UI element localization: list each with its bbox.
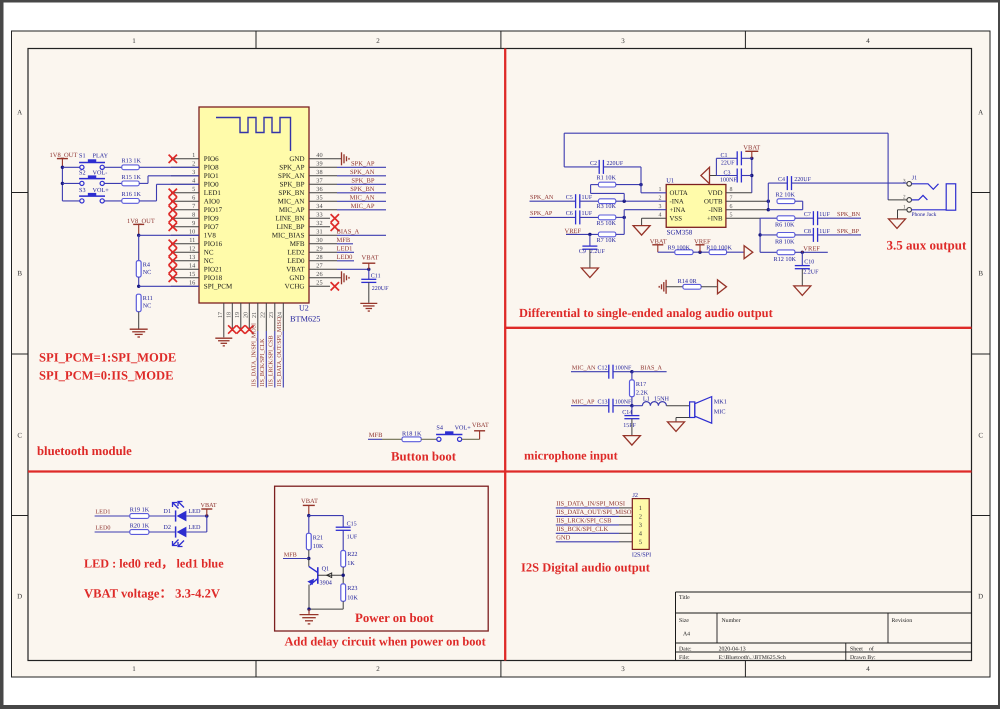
svg-text:21: 21 — [252, 312, 258, 318]
svg-text:220UF: 220UF — [794, 177, 811, 183]
svg-text:D: D — [978, 592, 983, 600]
svg-text:11: 11 — [189, 237, 195, 244]
svg-text:C12: C12 — [597, 366, 607, 372]
svg-text:LED: LED — [188, 508, 201, 515]
svg-text:PIO21: PIO21 — [204, 266, 223, 274]
svg-text:220UF: 220UF — [607, 161, 624, 167]
svg-text:NC: NC — [143, 269, 152, 276]
svg-text:SPK_AN: SPK_AN — [278, 172, 304, 180]
svg-text:4: 4 — [866, 665, 870, 673]
svg-text:2: 2 — [376, 37, 380, 45]
svg-text:5: 5 — [639, 539, 642, 546]
svg-text:4: 4 — [866, 37, 870, 45]
svg-text:D: D — [17, 592, 22, 600]
svg-text:1K: 1K — [347, 560, 355, 567]
svg-text:36: 36 — [316, 186, 322, 193]
svg-text:29: 29 — [316, 246, 322, 253]
svg-text:MIC_AP: MIC_AP — [572, 399, 595, 406]
svg-text:220UF: 220UF — [372, 286, 389, 292]
svg-text:NC: NC — [204, 249, 214, 257]
svg-text:microphone input: microphone input — [524, 449, 619, 463]
svg-text:PIO0: PIO0 — [204, 181, 219, 189]
svg-text:C9: C9 — [579, 249, 586, 255]
svg-text:R16 1K: R16 1K — [122, 191, 142, 198]
svg-text:R3 10K: R3 10K — [597, 203, 617, 210]
svg-text:Drawn By:: Drawn By: — [850, 655, 876, 661]
svg-text:PIO9: PIO9 — [204, 215, 219, 223]
svg-text:22: 22 — [261, 312, 267, 318]
svg-text:VOL-: VOL- — [93, 169, 108, 176]
svg-text:2: 2 — [192, 161, 195, 168]
svg-text:28: 28 — [316, 254, 322, 261]
svg-text:MIC_BIAS: MIC_BIAS — [272, 232, 305, 240]
svg-text:34: 34 — [316, 203, 323, 210]
svg-text:OUTB: OUTB — [704, 198, 723, 205]
svg-text:MFB: MFB — [337, 237, 351, 244]
svg-text:100NF: 100NF — [615, 366, 632, 372]
svg-text:S3: S3 — [79, 187, 86, 194]
svg-text:9: 9 — [192, 220, 195, 227]
svg-text:+INA: +INA — [670, 207, 686, 214]
svg-text:R20 1K: R20 1K — [130, 523, 150, 530]
svg-text:R21: R21 — [313, 534, 323, 541]
svg-text:1: 1 — [639, 505, 642, 512]
svg-text:IIS_DATA_OUT/SPI_MISO: IIS_DATA_OUT/SPI_MISO — [277, 316, 283, 386]
svg-text:SPI_PCM=0:IIS_MODE: SPI_PCM=0:IIS_MODE — [39, 369, 174, 383]
svg-text:C: C — [978, 431, 983, 439]
svg-text:C14: C14 — [622, 410, 632, 416]
svg-text:C15: C15 — [347, 521, 357, 527]
svg-text:17: 17 — [218, 312, 224, 318]
svg-text:I2S/SPI: I2S/SPI — [632, 552, 651, 559]
svg-text:15PF: 15PF — [623, 423, 636, 429]
svg-text:7: 7 — [730, 195, 733, 201]
svg-text:VBAT: VBAT — [301, 498, 318, 505]
svg-text:VREF: VREF — [803, 245, 820, 252]
svg-text:3: 3 — [659, 204, 662, 210]
svg-text:C: C — [17, 431, 22, 439]
svg-text:R18 1K: R18 1K — [402, 431, 422, 438]
svg-text:MFB: MFB — [284, 552, 297, 559]
svg-text:3904: 3904 — [320, 580, 332, 587]
svg-text:35: 35 — [316, 195, 322, 202]
svg-text:R10 100K: R10 100K — [706, 244, 732, 251]
svg-text:U2: U2 — [299, 304, 309, 313]
svg-text:C10: C10 — [804, 259, 814, 265]
svg-text:S4: S4 — [436, 425, 443, 432]
svg-text:LINE_BN: LINE_BN — [275, 215, 304, 223]
svg-text:C6: C6 — [566, 211, 573, 217]
svg-text:R7 10K: R7 10K — [597, 237, 617, 244]
svg-text:MIC_AP: MIC_AP — [351, 203, 375, 210]
svg-text:Button boot: Button boot — [391, 450, 457, 464]
svg-text:Title: Title — [679, 594, 690, 601]
svg-text:16: 16 — [189, 280, 195, 287]
svg-text:SPK_BN: SPK_BN — [837, 211, 861, 218]
svg-text:MIC_AN: MIC_AN — [278, 198, 305, 206]
svg-text:LED: LED — [188, 524, 201, 531]
svg-text:LED0: LED0 — [337, 254, 353, 261]
svg-text:A4: A4 — [683, 631, 690, 637]
svg-text:30: 30 — [316, 237, 322, 244]
svg-text:1: 1 — [192, 152, 195, 159]
svg-text:4: 4 — [659, 212, 662, 218]
svg-text:LED1: LED1 — [204, 189, 222, 197]
svg-text:MK1: MK1 — [714, 399, 727, 406]
svg-text:R8 10K: R8 10K — [775, 238, 795, 245]
svg-text:VCHG: VCHG — [285, 283, 305, 291]
svg-text:of: of — [869, 645, 874, 652]
svg-text:19: 19 — [235, 312, 241, 318]
svg-text:10K: 10K — [347, 594, 358, 601]
svg-text:BIAS_A: BIAS_A — [640, 365, 662, 372]
svg-text:S1: S1 — [79, 153, 86, 160]
svg-text:D2: D2 — [163, 524, 171, 531]
svg-text:8: 8 — [192, 212, 195, 219]
svg-text:R19 1K: R19 1K — [130, 507, 150, 514]
svg-text:IIS_DATA_IN/SPI_MOSI: IIS_DATA_IN/SPI_MOSI — [252, 323, 258, 387]
svg-text:39: 39 — [316, 161, 322, 168]
svg-text:NC: NC — [143, 303, 152, 310]
svg-text:40: 40 — [316, 152, 322, 159]
svg-text:20: 20 — [244, 312, 250, 318]
svg-text:C5: C5 — [566, 195, 573, 201]
svg-text:10: 10 — [189, 229, 195, 236]
svg-text:SGM358: SGM358 — [667, 229, 693, 237]
svg-text:2: 2 — [903, 195, 906, 201]
svg-text:1: 1 — [132, 665, 136, 673]
svg-text:S2: S2 — [79, 169, 86, 176]
svg-text:38: 38 — [316, 169, 322, 176]
svg-text:5: 5 — [192, 186, 195, 193]
svg-text:VBAT: VBAT — [362, 255, 379, 262]
svg-text:GND: GND — [289, 155, 304, 163]
svg-text:VOL+: VOL+ — [455, 425, 472, 432]
svg-text:LED : led0 red， led1 blue: LED : led0 red， led1 blue — [84, 557, 224, 571]
svg-text:1UF: 1UF — [819, 212, 830, 218]
svg-text:LED1: LED1 — [95, 509, 110, 516]
svg-text:R17: R17 — [636, 381, 646, 388]
svg-text:VBAT voltage： 3.3-4.2V: VBAT voltage： 3.3-4.2V — [84, 587, 220, 601]
svg-text:PIO1: PIO1 — [204, 172, 219, 180]
svg-text:VDD: VDD — [708, 190, 723, 197]
svg-text:IIS_DATA_IN/SPI_MOSI: IIS_DATA_IN/SPI_MOSI — [556, 501, 625, 508]
svg-text:37: 37 — [316, 178, 322, 185]
svg-text:LED2: LED2 — [287, 249, 305, 257]
svg-text:NC: NC — [204, 257, 214, 265]
svg-text:VBAT: VBAT — [201, 502, 217, 509]
svg-text:14: 14 — [189, 263, 196, 270]
svg-text:IIS_LRCK/SPI_CSB: IIS_LRCK/SPI_CSB — [556, 518, 612, 525]
svg-text:15NH: 15NH — [654, 395, 670, 402]
svg-text:PIO6: PIO6 — [204, 155, 219, 163]
svg-text:Differential to single-ended a: Differential to single-ended analog audi… — [519, 306, 774, 320]
svg-text:PIO18: PIO18 — [204, 274, 223, 282]
svg-text:BIAS_A: BIAS_A — [337, 229, 360, 236]
svg-text:B: B — [17, 269, 22, 277]
svg-text:LED1: LED1 — [337, 246, 353, 253]
svg-text:VOL+: VOL+ — [93, 187, 110, 194]
svg-text:R4: R4 — [143, 262, 150, 269]
svg-text:A: A — [17, 108, 22, 116]
svg-text:3: 3 — [903, 179, 906, 185]
svg-text:IIS_DATA_OUT/SPI_MISO: IIS_DATA_OUT/SPI_MISO — [556, 509, 632, 516]
svg-text:R23: R23 — [347, 585, 357, 592]
svg-text:1: 1 — [132, 37, 136, 45]
svg-text:VSS: VSS — [670, 215, 683, 222]
svg-text:R15 1K: R15 1K — [122, 174, 142, 181]
svg-text:1UF: 1UF — [819, 229, 830, 235]
svg-text:3: 3 — [621, 37, 625, 45]
svg-text:SPK_AN: SPK_AN — [350, 169, 375, 176]
svg-text:SPK_AP: SPK_AP — [530, 210, 553, 217]
svg-text:18: 18 — [227, 312, 233, 318]
svg-text:10K: 10K — [313, 543, 324, 550]
svg-text:2: 2 — [639, 514, 642, 521]
svg-text:I2S Digital audio output: I2S Digital audio output — [521, 561, 651, 575]
svg-text:C11: C11 — [371, 274, 381, 280]
svg-text:LED0: LED0 — [95, 525, 110, 532]
svg-text:C3: C3 — [723, 170, 730, 176]
svg-text:27: 27 — [316, 263, 322, 270]
svg-text:LINE_BP: LINE_BP — [277, 223, 305, 231]
svg-text:MIC_AN: MIC_AN — [572, 365, 596, 372]
svg-text:Sheet: Sheet — [850, 645, 863, 652]
svg-text:2.2UF: 2.2UF — [803, 269, 819, 275]
svg-text:Size: Size — [679, 618, 689, 624]
svg-text:PIO16: PIO16 — [204, 240, 223, 248]
svg-text:Revision: Revision — [892, 618, 913, 624]
svg-text:23: 23 — [269, 312, 275, 318]
svg-text:33: 33 — [316, 212, 322, 219]
svg-text:C13: C13 — [597, 400, 607, 406]
svg-text:5: 5 — [730, 212, 733, 218]
svg-text:C4: C4 — [778, 177, 785, 183]
svg-text:MFB: MFB — [369, 432, 383, 439]
svg-text:15: 15 — [189, 271, 195, 278]
svg-text:R22: R22 — [347, 551, 357, 558]
svg-text:12: 12 — [189, 246, 195, 253]
svg-text:R11: R11 — [143, 295, 153, 302]
svg-text:File:: File: — [679, 654, 690, 661]
svg-text:D1: D1 — [163, 508, 171, 515]
svg-text:-INA: -INA — [670, 198, 684, 205]
svg-text:Number: Number — [722, 617, 741, 624]
svg-text:2: 2 — [376, 665, 380, 673]
svg-text:7: 7 — [192, 203, 195, 210]
svg-text:B: B — [978, 269, 983, 277]
svg-text:C1: C1 — [720, 153, 727, 159]
svg-text:1V8: 1V8 — [204, 232, 217, 240]
svg-text:Date:: Date: — [679, 646, 692, 652]
svg-text:PIO17: PIO17 — [204, 206, 223, 214]
svg-text:VBAT: VBAT — [472, 422, 489, 429]
svg-text:8: 8 — [730, 187, 733, 193]
svg-text:MIC_AP: MIC_AP — [279, 206, 305, 214]
svg-text:25: 25 — [316, 280, 322, 287]
svg-text:1UF: 1UF — [582, 211, 593, 217]
svg-text:-INB: -INB — [709, 207, 723, 214]
svg-text:PIO7: PIO7 — [204, 223, 219, 231]
svg-text:BTM625: BTM625 — [290, 315, 320, 324]
svg-text:E:\Bluetooth\..\BTM625.Sch: E:\Bluetooth\..\BTM625.Sch — [719, 654, 786, 661]
svg-text:SPK_BP: SPK_BP — [351, 178, 375, 185]
svg-text:SPI_PCM: SPI_PCM — [204, 283, 233, 291]
svg-text:100NF: 100NF — [720, 178, 737, 184]
svg-text:C2: C2 — [590, 161, 597, 167]
svg-text:SPK_AP: SPK_AP — [351, 161, 375, 168]
svg-text:A: A — [978, 108, 983, 116]
svg-text:1: 1 — [659, 187, 662, 193]
svg-text:2: 2 — [659, 195, 662, 201]
svg-text:1UF: 1UF — [347, 535, 358, 541]
svg-text:Phone Jack: Phone Jack — [912, 212, 937, 218]
svg-text:3: 3 — [621, 665, 625, 673]
svg-text:PIO8: PIO8 — [204, 164, 219, 172]
svg-text:3.5 aux output: 3.5 aux output — [887, 238, 967, 253]
svg-text:PLAY: PLAY — [93, 153, 109, 160]
svg-text:Q1: Q1 — [322, 565, 330, 572]
svg-text:Add delay circuit when power o: Add delay circuit when power on boot — [285, 635, 487, 649]
svg-text:bluetooth module: bluetooth module — [37, 444, 132, 458]
svg-text:SPK_BN: SPK_BN — [278, 189, 304, 197]
svg-text:L1: L1 — [643, 395, 650, 402]
svg-text:SPK_BP: SPK_BP — [837, 228, 860, 235]
svg-text:13: 13 — [189, 254, 195, 261]
svg-text:J1: J1 — [912, 176, 917, 182]
svg-text:R5 10K: R5 10K — [597, 220, 617, 227]
svg-text:R6 10K: R6 10K — [775, 222, 795, 229]
svg-text:6: 6 — [192, 195, 195, 202]
svg-text:OUTA: OUTA — [670, 190, 688, 197]
svg-text:GND: GND — [556, 535, 570, 542]
svg-text:IIS_BCK/SPI_CLK: IIS_BCK/SPI_CLK — [556, 526, 608, 533]
svg-text:100NF: 100NF — [615, 400, 632, 406]
svg-text:R14 0R: R14 0R — [678, 278, 698, 285]
svg-text:VBAT: VBAT — [743, 144, 760, 151]
svg-text:R13 1K: R13 1K — [122, 158, 142, 165]
svg-text:3: 3 — [639, 522, 642, 529]
svg-text:1UF: 1UF — [582, 195, 593, 201]
svg-text:SPK_AP: SPK_AP — [279, 164, 304, 172]
svg-text:32: 32 — [316, 220, 322, 227]
svg-text:SPI_PCM=1:SPI_MODE: SPI_PCM=1:SPI_MODE — [39, 351, 176, 365]
svg-text:MIC_AN: MIC_AN — [350, 195, 375, 202]
svg-text:SPK_BP: SPK_BP — [280, 181, 305, 189]
svg-text:VBAT: VBAT — [286, 266, 305, 274]
svg-text:3: 3 — [192, 169, 195, 176]
svg-text:22UF: 22UF — [721, 161, 735, 167]
svg-text:LED0: LED0 — [287, 257, 305, 265]
svg-text:J2: J2 — [633, 492, 639, 499]
svg-text:R2 10K: R2 10K — [776, 192, 796, 199]
svg-text:C7: C7 — [804, 212, 811, 218]
svg-text:GND: GND — [289, 274, 304, 282]
svg-text:IIS_LRCK/SPI_CSB: IIS_LRCK/SPI_CSB — [269, 335, 275, 386]
svg-text:IIS_BCK/SPI_CLK: IIS_BCK/SPI_CLK — [260, 338, 266, 387]
svg-text:2020-04-13: 2020-04-13 — [719, 646, 746, 652]
svg-text:+INB: +INB — [707, 215, 723, 222]
svg-text:Power on boot: Power on boot — [355, 611, 434, 625]
svg-text:MIC: MIC — [714, 409, 726, 416]
svg-text:R1 10K: R1 10K — [597, 175, 617, 182]
svg-text:31: 31 — [316, 229, 322, 236]
svg-text:AIO0: AIO0 — [204, 198, 220, 206]
svg-text:MFB: MFB — [290, 240, 305, 248]
svg-text:SPK_BN: SPK_BN — [350, 186, 375, 193]
svg-text:U1: U1 — [666, 178, 674, 185]
svg-text:R9 100K: R9 100K — [668, 244, 691, 251]
svg-text:C8: C8 — [804, 229, 811, 235]
svg-text:6: 6 — [730, 204, 733, 210]
svg-text:R12 10K: R12 10K — [774, 256, 797, 263]
svg-text:2.2UF: 2.2UF — [590, 249, 606, 255]
svg-text:26: 26 — [316, 271, 322, 278]
svg-text:SPK_AN: SPK_AN — [530, 194, 554, 201]
